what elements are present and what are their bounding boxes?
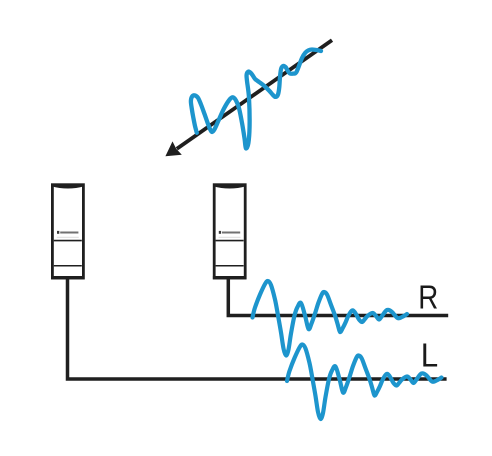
arrow shaft (incident sound direction) <box>177 40 332 149</box>
microphone M1 (left) body <box>52 185 83 278</box>
wire from microphone M1 to L output line <box>68 279 447 379</box>
microphone M2 (right) bottom bar <box>213 276 246 279</box>
microphone M1 (left) brand sub-line <box>57 236 79 238</box>
microphone M2 (right) brand label <box>219 231 221 234</box>
incident sound wave (blue) <box>191 50 321 149</box>
arrowhead <box>165 141 181 156</box>
microphone M2 (right) brand sub-line <box>219 236 241 238</box>
R channel waveform (blue) <box>253 281 408 356</box>
L channel waveform (blue, delayed copy) <box>287 344 442 419</box>
microphone M1 (left) divider line upper <box>54 240 82 242</box>
microphone M2 (right) top cap <box>213 184 246 189</box>
microphone M2 (right) divider line upper <box>216 240 244 242</box>
microphone M1 (left) brand label <box>57 231 59 234</box>
microphone M2 (right) body <box>214 185 245 278</box>
microphone M1 (left) top cap <box>51 184 84 189</box>
microphone M1 (left) divider line lower <box>54 265 82 267</box>
microphone M2 (right) divider line lower <box>216 265 244 267</box>
microphone M1 (left) bottom bar <box>51 276 84 279</box>
svg-text:L: L <box>421 337 438 374</box>
wire from microphone M2 to R output line <box>228 279 448 316</box>
svg-text:R: R <box>418 279 438 316</box>
